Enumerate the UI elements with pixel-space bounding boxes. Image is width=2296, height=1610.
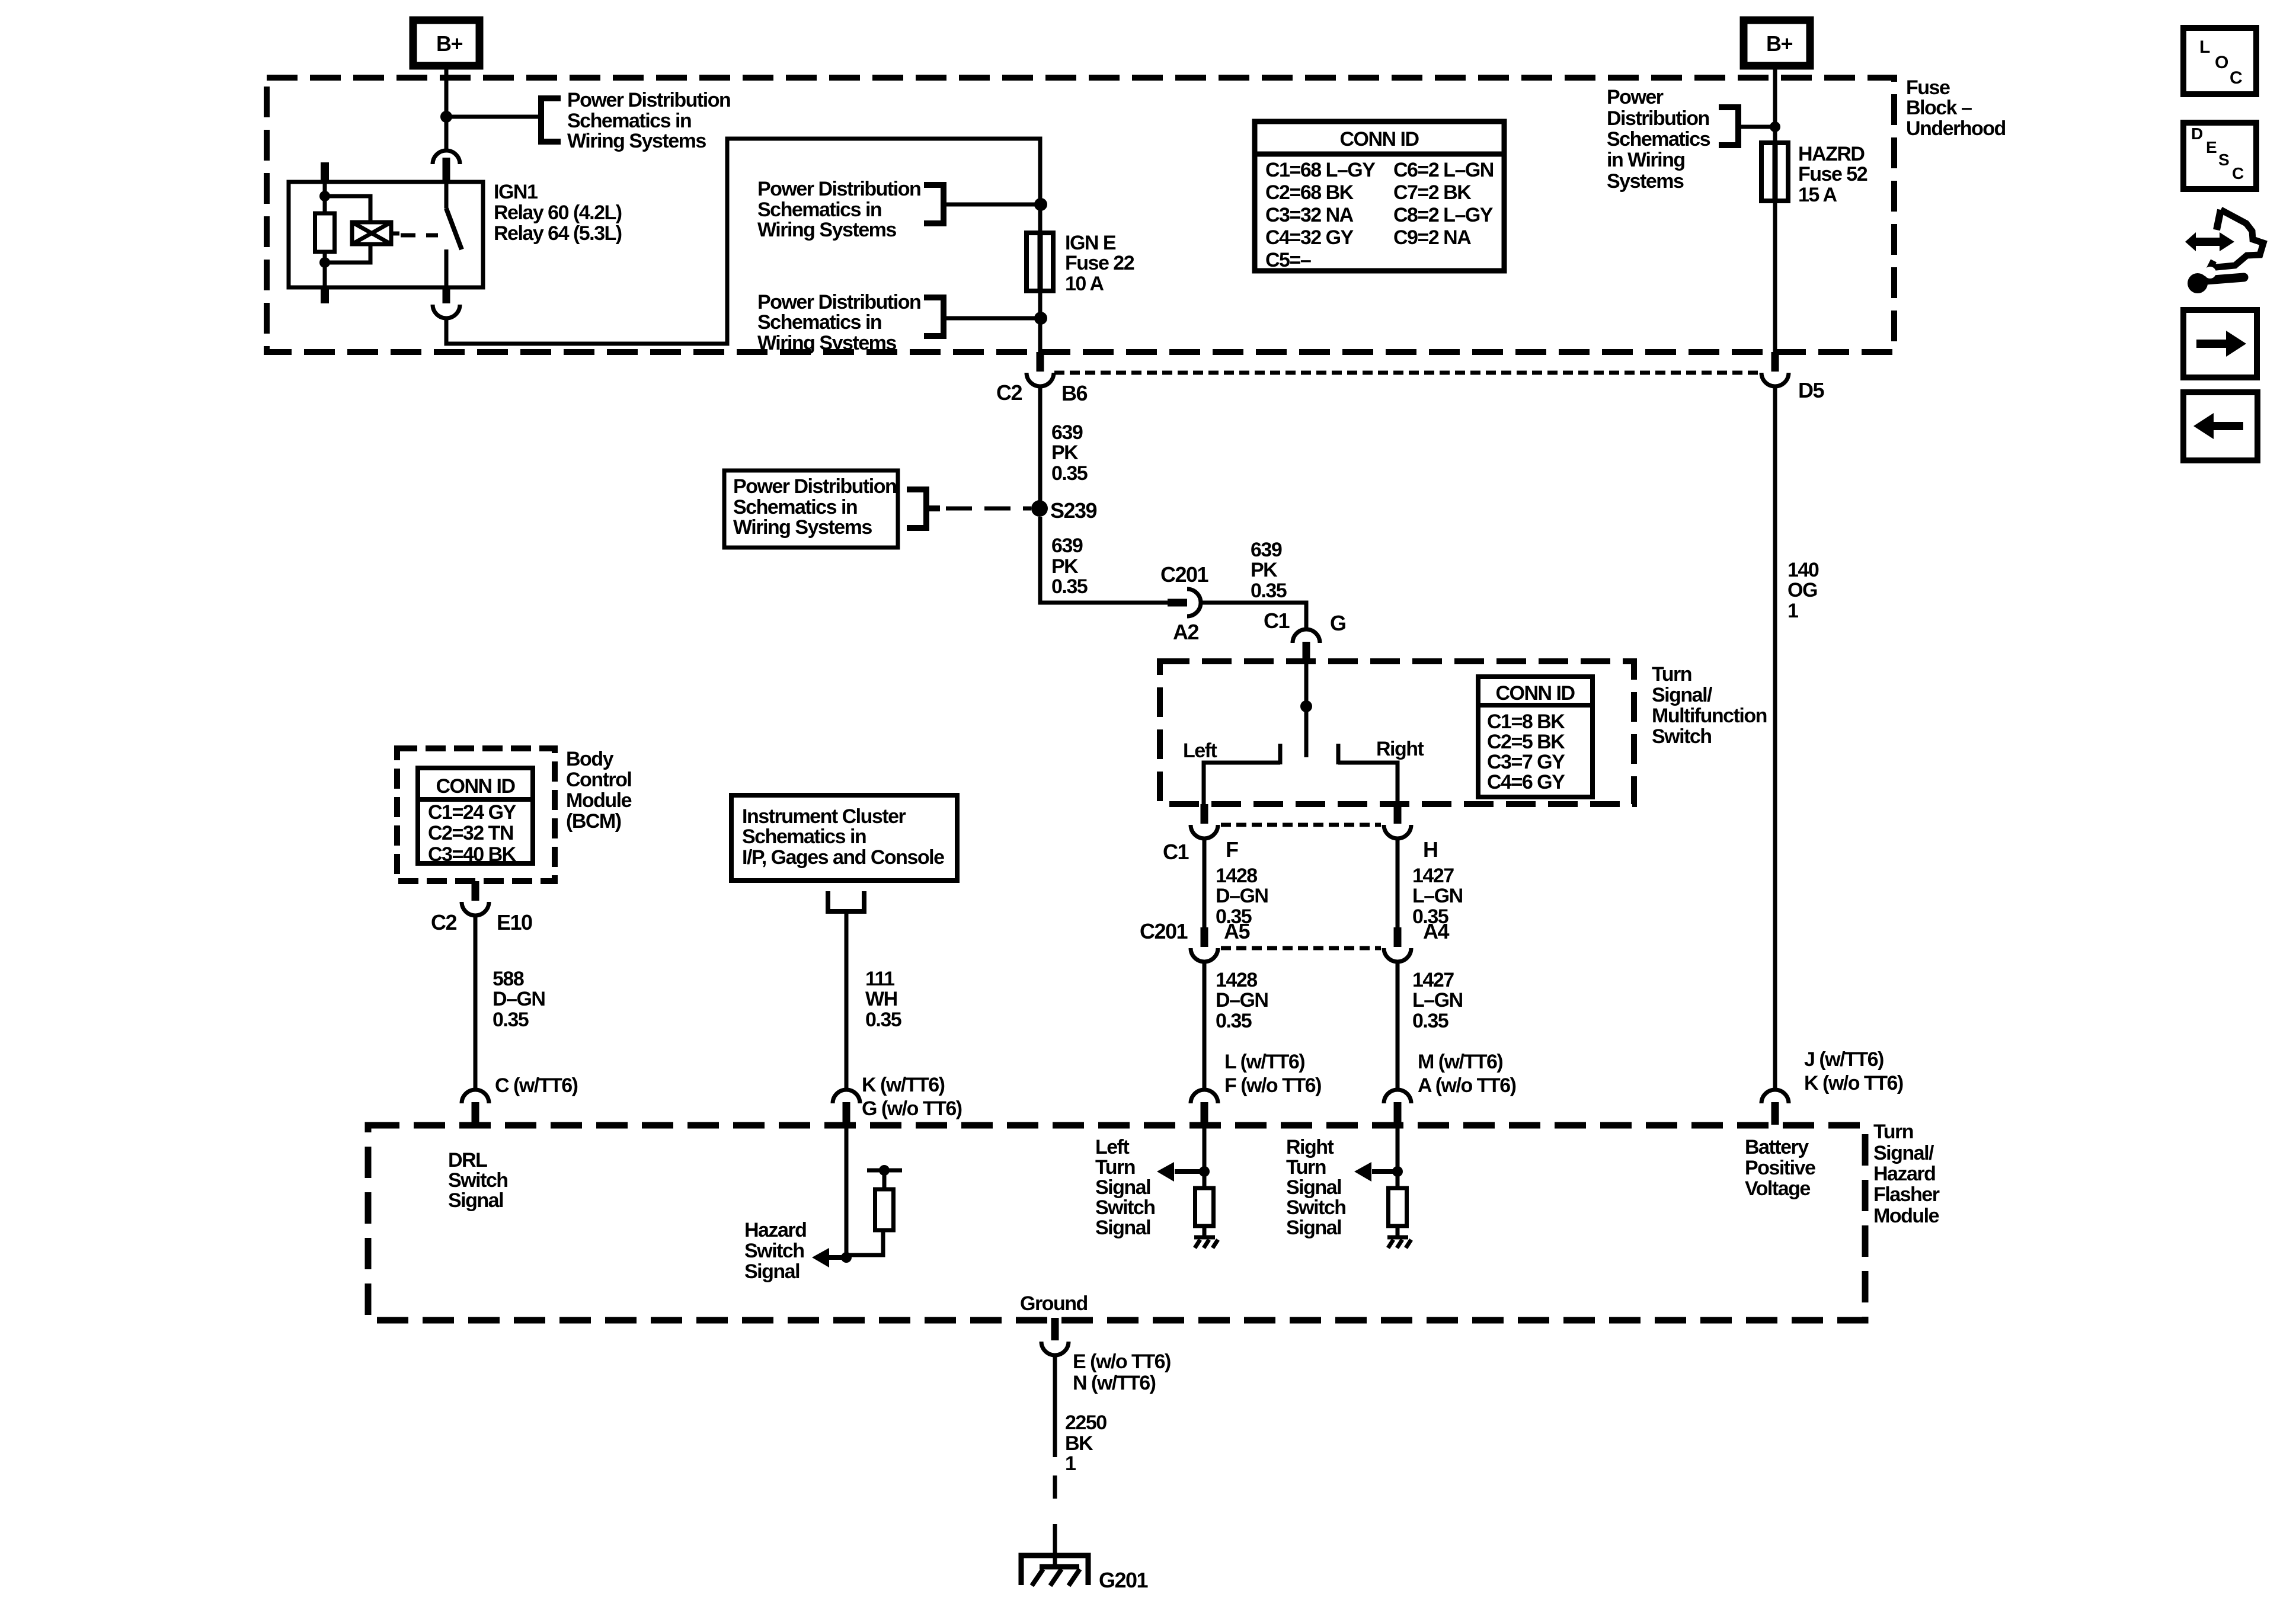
- svg-text:Positive: Positive: [1745, 1157, 1815, 1179]
- wire B+ left down: [445, 66, 449, 151]
- connector D5: [1771, 352, 1779, 372]
- svg-text:Switch: Switch: [744, 1240, 804, 1262]
- relay coil node bottom: [319, 257, 330, 268]
- svg-text:N (w/TT6): N (w/TT6): [1073, 1372, 1156, 1394]
- svg-text:Schematics in: Schematics in: [757, 311, 881, 334]
- svg-text:Signal/: Signal/: [1873, 1142, 1934, 1164]
- wire S239 down and right to C201: [1040, 517, 1168, 603]
- relay switch contact lower: [445, 249, 449, 287]
- svg-text:C1=24 GY: C1=24 GY: [428, 801, 517, 824]
- svg-text:G: G: [1330, 611, 1346, 635]
- svg-text:L–GN: L–GN: [1412, 989, 1463, 1012]
- svg-text:Fuse: Fuse: [1906, 76, 1950, 99]
- svg-text:Module: Module: [1873, 1205, 1939, 1227]
- svg-text:639: 639: [1251, 539, 1282, 561]
- svg-text:1427: 1427: [1412, 865, 1454, 887]
- svg-text:C3=40 BK: C3=40 BK: [428, 843, 517, 866]
- connector C2 E10: [472, 881, 479, 901]
- svg-text:C201: C201: [1140, 919, 1188, 943]
- connector E N ground out: [1051, 1318, 1059, 1340]
- svg-text:BK: BK: [1065, 1432, 1093, 1455]
- svg-text:Schematics in: Schematics in: [733, 496, 857, 518]
- svg-text:C2: C2: [431, 910, 456, 934]
- svg-text:S239: S239: [1050, 498, 1097, 523]
- left turn signal wire in module: [1203, 1125, 1207, 1188]
- node splice at left B+ wire: [440, 111, 452, 123]
- svg-text:DRL: DRL: [448, 1149, 487, 1172]
- svg-text:A2: A2: [1173, 620, 1198, 644]
- connector C2 B6: [1037, 352, 1044, 372]
- relay solenoid X-box: [352, 222, 391, 244]
- svg-text:C4=32 GY: C4=32 GY: [1265, 226, 1354, 249]
- connector C201 A5: [1201, 927, 1208, 947]
- svg-text:Left: Left: [1095, 1136, 1130, 1158]
- icon left arrow box: [2183, 392, 2257, 460]
- left turn ground: [1194, 1235, 1215, 1240]
- hazard switch signal arrow: [827, 1255, 846, 1260]
- svg-text:C3=7 GY: C3=7 GY: [1487, 751, 1565, 773]
- svg-text:Right: Right: [1286, 1136, 1334, 1158]
- turn signal multifunction switch dashed box: [1160, 661, 1634, 804]
- svg-text:588: 588: [493, 968, 524, 990]
- svg-text:K (w/TT6): K (w/TT6): [862, 1074, 945, 1096]
- svg-text:Systems: Systems: [1607, 170, 1684, 193]
- wire 2250 BK down: [1053, 1355, 1057, 1457]
- svg-text:Left: Left: [1183, 740, 1217, 762]
- svg-text:C1: C1: [1264, 609, 1290, 633]
- connector at relay bottom: [443, 287, 450, 303]
- svg-text:Power Distribution: Power Distribution: [733, 475, 896, 498]
- svg-text:10 A: 10 A: [1065, 273, 1104, 295]
- svg-text:Hazard: Hazard: [1873, 1163, 1935, 1185]
- hazard switch branch wire: [845, 1125, 849, 1257]
- svg-text:C3=32 NA: C3=32 NA: [1265, 204, 1354, 226]
- svg-text:Relay 64 (5.3L): Relay 64 (5.3L): [494, 222, 622, 245]
- svg-text:Underhood: Underhood: [1906, 117, 2006, 140]
- right turn ground: [1387, 1235, 1408, 1240]
- dotted connector line C2-D5: [1054, 371, 1761, 375]
- connector at relay 60/64 top: [433, 151, 460, 164]
- svg-text:PK: PK: [1251, 559, 1278, 581]
- icon DESC box: [2183, 123, 2256, 189]
- switch left contact: [1278, 744, 1283, 764]
- svg-text:in Wiring: in Wiring: [1607, 149, 1685, 171]
- svg-text:C1: C1: [1163, 840, 1189, 864]
- svg-text:H: H: [1423, 837, 1438, 862]
- turn signal hazard flasher module dashed box: [368, 1125, 1865, 1320]
- bracket ref 3: [924, 297, 944, 336]
- svg-text:1: 1: [1065, 1452, 1076, 1475]
- bracket ref 5: [1719, 107, 1738, 145]
- svg-text:Wiring Systems: Wiring Systems: [567, 130, 706, 152]
- svg-text:C4=6 GY: C4=6 GY: [1487, 771, 1565, 793]
- svg-text:C2=32 TN: C2=32 TN: [428, 822, 513, 844]
- svg-text:Signal: Signal: [744, 1260, 800, 1283]
- wire dash segment to G201: [1053, 1475, 1057, 1499]
- svg-text:C201: C201: [1160, 562, 1209, 587]
- connector C1 F below switch: [1201, 804, 1208, 824]
- svg-text:2250: 2250: [1065, 1411, 1107, 1434]
- node at hazrd fuse top: [1770, 121, 1780, 132]
- connector J K into module: [1761, 1090, 1789, 1103]
- left turn resistor: [1195, 1188, 1214, 1226]
- svg-text:L (w/TT6): L (w/TT6): [1224, 1051, 1304, 1073]
- svg-text:B+: B+: [1766, 31, 1792, 56]
- svg-text:S: S: [2218, 151, 2230, 169]
- connector C into module: [462, 1090, 489, 1103]
- svg-text:Switch: Switch: [1095, 1196, 1155, 1219]
- svg-text:CONN ID: CONN ID: [436, 775, 515, 798]
- wire HAZRD fuse to D5 connector: [1773, 201, 1777, 353]
- svg-text:140: 140: [1787, 559, 1819, 581]
- svg-text:G (w/o TT6): G (w/o TT6): [862, 1097, 962, 1120]
- svg-text:111: 111: [865, 968, 894, 990]
- PD reference box at S239: [724, 470, 898, 548]
- relay solenoid linkage stub: [391, 232, 399, 236]
- svg-text:1427: 1427: [1412, 969, 1454, 991]
- svg-text:A5: A5: [1224, 919, 1250, 943]
- svg-text:E10: E10: [497, 910, 532, 934]
- svg-text:I/P, Gages and Console: I/P, Gages and Console: [742, 846, 944, 869]
- switch right contact: [1336, 744, 1341, 764]
- svg-text:Signal: Signal: [1095, 1176, 1150, 1199]
- svg-text:D5: D5: [1798, 378, 1824, 402]
- svg-text:15 A: 15 A: [1798, 184, 1837, 206]
- svg-text:Power Distribution: Power Distribution: [757, 178, 920, 200]
- fuse HAZRD 52: [1761, 143, 1788, 201]
- svg-text:Block –: Block –: [1906, 97, 1972, 119]
- svg-text:Turn: Turn: [1095, 1156, 1135, 1179]
- svg-text:D–GN: D–GN: [1216, 885, 1268, 907]
- B+ terminal left: [413, 20, 479, 66]
- svg-text:0.35: 0.35: [493, 1009, 529, 1031]
- connector K G into module: [833, 1090, 860, 1103]
- svg-text:Wiring Systems: Wiring Systems: [757, 219, 896, 241]
- left turn arrow: [1175, 1169, 1204, 1174]
- CONN ID table fuse block: [1255, 121, 1504, 271]
- svg-text:639: 639: [1051, 421, 1083, 444]
- wire C2 down to S239: [1038, 386, 1043, 502]
- svg-text:C1=68 L–GY: C1=68 L–GY: [1265, 159, 1376, 181]
- bracket ref 1 power distribution: [541, 98, 561, 142]
- ground G201 symbol: [1021, 1555, 1088, 1585]
- connector M A module top: [1384, 1090, 1411, 1103]
- svg-text:PK: PK: [1051, 555, 1079, 578]
- svg-text:J (w/TT6): J (w/TT6): [1804, 1048, 1884, 1071]
- wire 588 down: [474, 916, 478, 1090]
- switch pole wire: [1304, 663, 1309, 757]
- svg-text:E: E: [2206, 138, 2217, 156]
- svg-text:C: C: [2232, 164, 2244, 183]
- wire bracket2 to fuse wire: [944, 203, 1040, 207]
- wire bracket3 to fuse wire: [944, 316, 1040, 321]
- switch pole node: [1300, 700, 1312, 712]
- svg-text:L–GN: L–GN: [1412, 885, 1463, 907]
- wire left 1428 upper: [1203, 838, 1207, 929]
- svg-text:D–GN: D–GN: [493, 988, 545, 1010]
- svg-text:F: F: [1226, 837, 1238, 862]
- svg-text:0.35: 0.35: [1251, 580, 1287, 602]
- svg-text:CONN ID: CONN ID: [1495, 682, 1575, 705]
- wire 140 OG down: [1773, 386, 1777, 1090]
- svg-text:0.35: 0.35: [1051, 575, 1088, 598]
- svg-text:A (w/o TT6): A (w/o TT6): [1418, 1074, 1516, 1097]
- svg-text:Signal: Signal: [1095, 1217, 1150, 1239]
- svg-text:Distribution: Distribution: [1607, 107, 1709, 130]
- body control module dashed box: [397, 748, 555, 881]
- B+ terminal right: [1744, 20, 1810, 66]
- svg-text:1: 1: [1787, 600, 1798, 622]
- svg-text:Flasher: Flasher: [1873, 1183, 1940, 1206]
- svg-text:IGN E: IGN E: [1065, 232, 1116, 254]
- hazard branch top bar: [867, 1169, 902, 1173]
- svg-text:Module: Module: [566, 789, 632, 812]
- svg-text:Hazard: Hazard: [744, 1219, 806, 1241]
- connector C201 A4: [1394, 927, 1402, 947]
- relay IGN1 box: [289, 182, 483, 287]
- svg-text:Ground: Ground: [1020, 1292, 1088, 1315]
- svg-text:0.35: 0.35: [1051, 462, 1088, 485]
- node below IGN E fuse: [1034, 312, 1047, 325]
- wire into IGN E fuse: [1038, 204, 1043, 233]
- relay coil node top: [319, 191, 330, 201]
- svg-text:Body: Body: [566, 748, 614, 770]
- svg-text:G201: G201: [1099, 1568, 1149, 1592]
- svg-text:C9=2 NA: C9=2 NA: [1393, 226, 1471, 249]
- svg-text:Relay 60 (4.2L): Relay 60 (4.2L): [494, 201, 622, 224]
- relay coil wire and resistor: [323, 182, 327, 213]
- wire right 1427 upper: [1396, 838, 1400, 929]
- relay solenoid branch wires: [325, 196, 370, 222]
- wire C201 to C1 G corner: [1200, 603, 1306, 630]
- svg-text:L: L: [2199, 37, 2210, 57]
- svg-text:D–GN: D–GN: [1216, 989, 1268, 1012]
- svg-text:WH: WH: [865, 988, 897, 1010]
- wire B+ right down: [1773, 66, 1777, 143]
- splice S239: [1031, 500, 1048, 517]
- svg-text:639: 639: [1051, 534, 1083, 557]
- hazard branch node top: [879, 1165, 890, 1176]
- hazard node on main wire: [841, 1252, 852, 1263]
- connector C1 G into switch: [1293, 629, 1320, 643]
- svg-text:Fuse 52: Fuse 52: [1798, 163, 1868, 185]
- svg-text:1428: 1428: [1216, 865, 1257, 887]
- dotted line C1 row: [1221, 823, 1381, 827]
- svg-text:A4: A4: [1423, 919, 1449, 943]
- svg-text:M (w/TT6): M (w/TT6): [1418, 1051, 1502, 1073]
- svg-text:Multifunction: Multifunction: [1652, 705, 1767, 727]
- svg-text:D: D: [2191, 124, 2203, 143]
- svg-text:Power: Power: [1607, 86, 1664, 108]
- fork under instrument cluster box: [828, 891, 864, 911]
- svg-text:C2=5 BK: C2=5 BK: [1487, 731, 1565, 753]
- hazard branch resistor: [875, 1189, 894, 1230]
- svg-text:C6=2 L–GN: C6=2 L–GN: [1393, 159, 1494, 181]
- svg-text:K (w/o TT6): K (w/o TT6): [1804, 1072, 1903, 1094]
- left turn node: [1199, 1166, 1210, 1177]
- svg-text:C1=8 BK: C1=8 BK: [1487, 710, 1565, 733]
- relay linkage dashes: [401, 233, 438, 238]
- svg-text:Signal: Signal: [1286, 1176, 1341, 1199]
- connector H below switch: [1394, 804, 1402, 824]
- svg-text:B6: B6: [1061, 381, 1087, 405]
- relay switch contact upper: [445, 182, 449, 209]
- svg-text:OG: OG: [1787, 579, 1817, 601]
- svg-text:0.35: 0.35: [1412, 1010, 1448, 1032]
- svg-text:C2: C2: [996, 380, 1022, 405]
- svg-text:E (w/o TT6): E (w/o TT6): [1073, 1350, 1171, 1373]
- svg-text:IGN1: IGN1: [494, 181, 538, 203]
- svg-text:Wiring Systems: Wiring Systems: [757, 332, 896, 354]
- svg-text:Control: Control: [566, 769, 631, 791]
- svg-text:Wiring Systems: Wiring Systems: [733, 516, 872, 539]
- svg-text:C (w/TT6): C (w/TT6): [495, 1074, 578, 1097]
- svg-text:Instrument Cluster: Instrument Cluster: [742, 805, 906, 828]
- svg-text:Power Distribution: Power Distribution: [757, 291, 920, 313]
- wire to power distribution bracket 5: [1740, 125, 1775, 129]
- svg-text:PK: PK: [1051, 441, 1079, 464]
- svg-text:Switch: Switch: [448, 1169, 508, 1192]
- svg-text:(BCM): (BCM): [566, 810, 621, 833]
- svg-text:Power Distribution: Power Distribution: [567, 89, 730, 111]
- dashed wire to S239: [946, 507, 1031, 511]
- instrument cluster reference box: [731, 795, 957, 881]
- svg-text:Voltage: Voltage: [1745, 1177, 1810, 1200]
- svg-text:Switch: Switch: [1652, 725, 1712, 748]
- svg-text:B+: B+: [436, 31, 462, 56]
- svg-text:Battery: Battery: [1745, 1136, 1809, 1158]
- icon LOC box: [2183, 28, 2256, 94]
- svg-text:Turn: Turn: [1286, 1156, 1326, 1179]
- svg-text:C7=2 BK: C7=2 BK: [1393, 181, 1472, 204]
- wire relay bottom jog to IGN E fuse: [446, 139, 1040, 344]
- wire IGN E fuse to C2 connector: [1038, 291, 1043, 353]
- wire right 1427 lower: [1396, 962, 1400, 1090]
- BCM CONN ID table: [418, 768, 533, 863]
- dotted line C201 row: [1221, 946, 1381, 950]
- svg-text:CONN ID: CONN ID: [1339, 128, 1419, 151]
- relay coil pin stub top: [321, 162, 329, 182]
- right turn arrow: [1372, 1169, 1398, 1174]
- fuse IGN E 22: [1027, 233, 1053, 291]
- svg-text:Schematics in: Schematics in: [567, 110, 691, 132]
- fuse block - underhood dashed boundary box: [267, 78, 1894, 352]
- inline connector C201 A2: [1168, 599, 1187, 607]
- svg-text:Fuse 22: Fuse 22: [1065, 252, 1134, 274]
- svg-text:C: C: [2230, 68, 2243, 88]
- bracket ref 4: [907, 489, 926, 528]
- svg-text:Schematics in: Schematics in: [742, 825, 866, 848]
- svg-text:C2=68 BK: C2=68 BK: [1265, 181, 1354, 204]
- svg-text:0.35: 0.35: [1216, 1010, 1252, 1032]
- svg-text:O: O: [2215, 53, 2228, 72]
- wire left 1428 lower: [1203, 962, 1207, 1090]
- svg-text:Signal: Signal: [448, 1189, 503, 1212]
- svg-text:HAZRD: HAZRD: [1798, 143, 1865, 165]
- svg-text:Switch: Switch: [1286, 1196, 1346, 1219]
- node at IGN E fuse top: [1034, 198, 1047, 211]
- svg-text:0.35: 0.35: [865, 1009, 901, 1031]
- svg-text:Schematics: Schematics: [1607, 128, 1710, 151]
- svg-text:Turn: Turn: [1873, 1121, 1913, 1143]
- icon vehicle with double arrow and wrench: [2185, 232, 2234, 251]
- svg-text:F (w/o TT6): F (w/o TT6): [1224, 1074, 1321, 1097]
- icon right arrow box: [2183, 310, 2257, 377]
- svg-text:Turn: Turn: [1652, 663, 1691, 686]
- right turn node: [1392, 1166, 1403, 1177]
- connector L F module top: [1191, 1090, 1218, 1103]
- svg-text:1428: 1428: [1216, 969, 1257, 991]
- wire to power distribution bracket 1: [446, 115, 538, 119]
- svg-text:C8=2 L–GY: C8=2 L–GY: [1393, 204, 1494, 226]
- svg-text:Signal/: Signal/: [1652, 684, 1713, 706]
- svg-text:Signal: Signal: [1286, 1217, 1341, 1239]
- svg-text:Schematics in: Schematics in: [757, 199, 881, 221]
- right turn resistor: [1389, 1188, 1407, 1226]
- right turn signal wire in module: [1396, 1125, 1400, 1188]
- bracket ref 2: [924, 185, 944, 223]
- relay coil pin stub bottom: [321, 287, 329, 303]
- relay switch blade: [446, 209, 462, 249]
- svg-text:Right: Right: [1376, 738, 1424, 760]
- switch CONN ID table: [1478, 677, 1593, 797]
- wire 111 WH down: [845, 911, 849, 1090]
- svg-text:C5=–: C5=–: [1265, 249, 1311, 271]
